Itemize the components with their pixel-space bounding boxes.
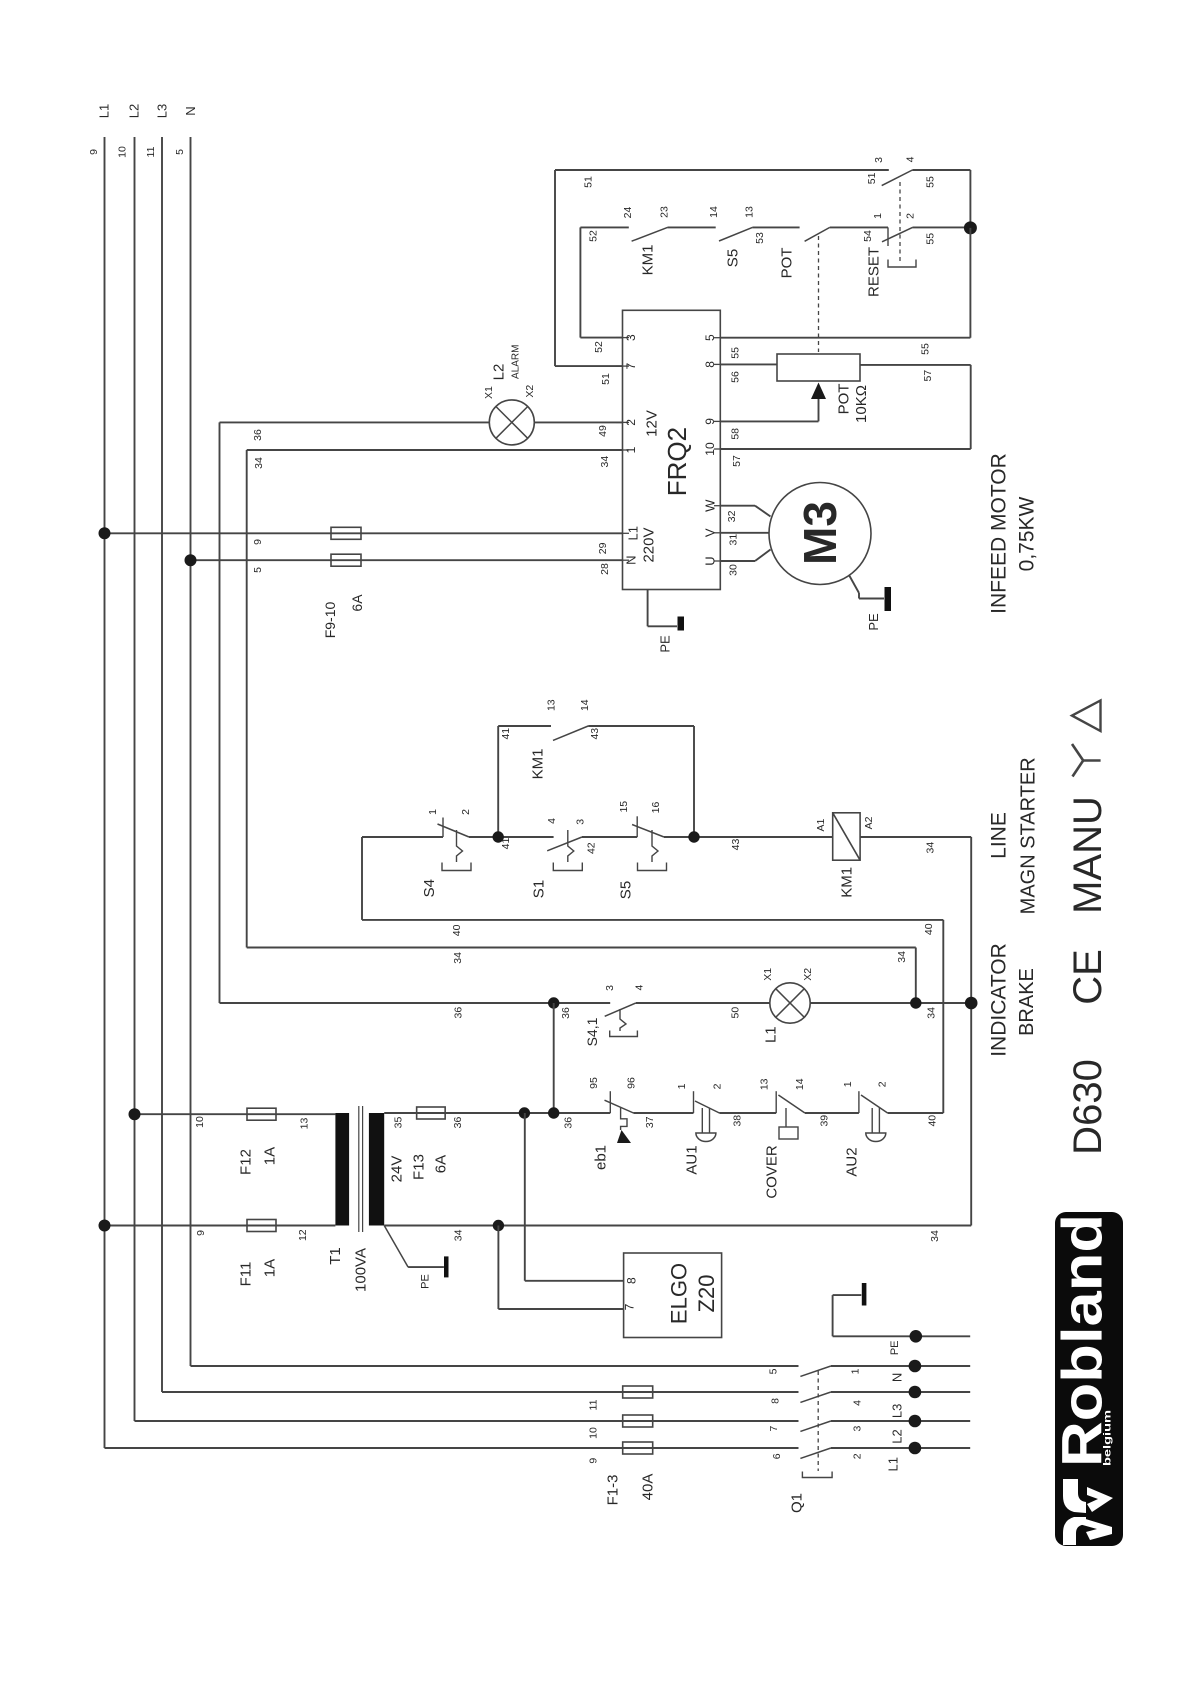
svg-text:N: N [890, 1373, 905, 1382]
svg-text:V: V [703, 528, 718, 537]
svg-text:1A: 1A [262, 1259, 279, 1277]
svg-text:AU1: AU1 [684, 1145, 701, 1174]
svg-text:32: 32 [726, 510, 738, 522]
svg-text:9: 9 [88, 149, 100, 155]
svg-text:37: 37 [644, 1116, 656, 1128]
svg-text:7: 7 [624, 362, 638, 369]
svg-text:220V: 220V [641, 527, 658, 562]
svg-text:COVER: COVER [764, 1145, 781, 1199]
svg-text:35: 35 [392, 1117, 404, 1129]
svg-text:AU2: AU2 [844, 1147, 861, 1176]
svg-text:MAGN STARTER: MAGN STARTER [1017, 757, 1039, 914]
svg-text:INDICATOR: INDICATOR [987, 943, 1010, 1057]
svg-text:36: 36 [252, 429, 264, 441]
svg-text:34: 34 [453, 1229, 465, 1241]
svg-text:14: 14 [708, 206, 720, 218]
svg-text:39: 39 [819, 1115, 831, 1127]
svg-text:10: 10 [194, 1116, 206, 1128]
svg-text:PE: PE [889, 1340, 901, 1355]
svg-text:43: 43 [589, 728, 601, 740]
svg-text:10: 10 [703, 442, 717, 456]
svg-text:6A: 6A [433, 1155, 450, 1173]
svg-text:X1: X1 [483, 386, 495, 399]
svg-text:L1: L1 [97, 104, 112, 118]
svg-text:34: 34 [925, 1007, 937, 1019]
svg-text:24: 24 [622, 207, 634, 219]
svg-text:A1: A1 [815, 819, 827, 832]
svg-text:40: 40 [923, 923, 935, 935]
svg-text:15: 15 [618, 801, 630, 813]
svg-text:L3: L3 [890, 1404, 905, 1418]
svg-text:4: 4 [546, 818, 558, 824]
svg-text:eb1: eb1 [593, 1145, 610, 1170]
svg-text:14: 14 [579, 699, 591, 711]
svg-text:51: 51 [600, 373, 612, 385]
svg-text:1: 1 [427, 809, 439, 815]
svg-text:KM1: KM1 [640, 245, 657, 276]
svg-text:PE: PE [658, 635, 673, 653]
svg-text:CE: CE [1066, 949, 1110, 1005]
svg-text:29: 29 [597, 542, 609, 554]
svg-text:12: 12 [297, 1229, 309, 1241]
svg-text:34: 34 [924, 842, 936, 854]
svg-text:16: 16 [650, 802, 662, 814]
svg-text:10KΩ: 10KΩ [853, 385, 870, 423]
svg-text:S5: S5 [618, 881, 635, 899]
svg-text:9: 9 [587, 1458, 599, 1464]
svg-text:W: W [703, 499, 718, 512]
svg-text:BRAKE: BRAKE [1016, 968, 1038, 1036]
svg-text:0,75KW: 0,75KW [1016, 496, 1039, 571]
svg-text:X2: X2 [802, 968, 814, 981]
svg-text:51: 51 [582, 176, 594, 188]
svg-text:6: 6 [771, 1453, 783, 1459]
svg-text:23: 23 [658, 206, 670, 218]
svg-text:40: 40 [451, 924, 463, 936]
svg-text:S5: S5 [725, 249, 742, 267]
svg-text:1: 1 [624, 446, 638, 453]
svg-text:Z20: Z20 [694, 1275, 719, 1313]
svg-text:1: 1 [676, 1083, 688, 1089]
svg-text:56: 56 [730, 371, 742, 383]
svg-text:5: 5 [174, 149, 186, 155]
svg-text:T1: T1 [327, 1247, 344, 1265]
svg-text:5: 5 [703, 334, 717, 341]
svg-text:34: 34 [599, 456, 611, 468]
svg-text:2: 2 [712, 1083, 724, 1089]
svg-text:34: 34 [452, 952, 464, 964]
svg-text:L2: L2 [491, 364, 508, 381]
svg-text:36: 36 [560, 1007, 572, 1019]
svg-text:FRQ2: FRQ2 [662, 427, 692, 496]
svg-text:X1: X1 [762, 968, 774, 981]
svg-text:4: 4 [905, 156, 917, 162]
svg-text:95: 95 [588, 1077, 600, 1089]
svg-text:F13: F13 [411, 1154, 428, 1180]
svg-text:54: 54 [862, 230, 874, 242]
svg-text:57: 57 [731, 455, 743, 467]
svg-text:ALARM: ALARM [511, 345, 522, 379]
svg-text:KM1: KM1 [839, 867, 856, 898]
svg-text:50: 50 [730, 1007, 742, 1019]
svg-text:L1: L1 [626, 526, 641, 540]
svg-text:8: 8 [770, 1398, 782, 1404]
svg-text:36: 36 [453, 1007, 465, 1019]
svg-text:2: 2 [905, 213, 917, 219]
svg-text:34: 34 [253, 457, 265, 469]
svg-text:49: 49 [597, 425, 609, 437]
svg-text:D630: D630 [1066, 1059, 1110, 1155]
svg-text:55: 55 [730, 347, 742, 359]
svg-text:F12: F12 [238, 1149, 255, 1175]
svg-text:U: U [703, 556, 718, 565]
svg-text:S1: S1 [530, 880, 547, 898]
svg-text:38: 38 [732, 1115, 744, 1127]
svg-text:58: 58 [730, 428, 742, 440]
svg-text:28: 28 [599, 563, 611, 575]
svg-text:A2: A2 [863, 816, 875, 829]
svg-text:96: 96 [626, 1077, 638, 1089]
svg-text:X2: X2 [524, 385, 536, 398]
svg-text:3: 3 [624, 334, 638, 341]
svg-text:2: 2 [876, 1081, 888, 1087]
svg-text:S4,1: S4,1 [584, 1017, 600, 1046]
svg-text:PE: PE [420, 1274, 432, 1289]
svg-text:6A: 6A [349, 594, 365, 612]
svg-text:55: 55 [924, 233, 936, 245]
svg-text:9: 9 [195, 1230, 207, 1236]
svg-text:53: 53 [754, 232, 766, 244]
svg-text:7: 7 [623, 1303, 637, 1310]
svg-text:100VA: 100VA [353, 1248, 370, 1292]
svg-text:1: 1 [842, 1081, 854, 1087]
svg-text:2: 2 [624, 419, 638, 426]
svg-text:7: 7 [768, 1426, 780, 1432]
svg-text:3: 3 [575, 819, 587, 825]
svg-text:40A: 40A [640, 1474, 657, 1501]
svg-text:13: 13 [545, 699, 557, 711]
svg-text:4: 4 [633, 985, 645, 991]
svg-text:8: 8 [703, 361, 717, 368]
svg-text:4: 4 [852, 1400, 864, 1406]
svg-text:ELGO: ELGO [667, 1263, 692, 1324]
svg-text:13: 13 [759, 1078, 771, 1090]
svg-text:13: 13 [744, 206, 756, 218]
svg-text:L3: L3 [155, 104, 170, 118]
svg-text:30: 30 [727, 564, 739, 576]
svg-text:3: 3 [873, 157, 885, 163]
svg-text:55: 55 [924, 176, 936, 188]
svg-text:43: 43 [730, 839, 742, 851]
svg-text:L1: L1 [886, 1457, 901, 1471]
svg-text:11: 11 [145, 146, 157, 157]
svg-text:36: 36 [563, 1117, 575, 1129]
svg-text:PE: PE [866, 613, 881, 631]
svg-text:11: 11 [587, 1399, 599, 1410]
svg-text:L2: L2 [890, 1429, 905, 1443]
svg-text:KM1: KM1 [529, 749, 546, 780]
svg-text:31: 31 [727, 534, 739, 546]
svg-text:N: N [624, 556, 639, 565]
svg-text:2: 2 [852, 1453, 864, 1459]
svg-text:57: 57 [922, 370, 934, 382]
svg-text:34: 34 [929, 1230, 941, 1242]
svg-text:POT: POT [836, 384, 853, 415]
svg-text:POT: POT [779, 248, 796, 279]
svg-text:N: N [183, 106, 198, 115]
svg-text:S4: S4 [421, 879, 438, 897]
svg-text:52: 52 [593, 341, 605, 353]
svg-text:41: 41 [500, 838, 512, 850]
svg-text:L1: L1 [763, 1026, 780, 1043]
svg-text:10: 10 [587, 1427, 599, 1439]
svg-text:5: 5 [252, 567, 264, 573]
svg-text:5: 5 [768, 1368, 780, 1374]
svg-text:10: 10 [117, 146, 129, 158]
svg-text:belgium: belgium [1103, 1410, 1114, 1466]
svg-text:3: 3 [604, 985, 616, 991]
svg-text:51: 51 [866, 172, 878, 184]
svg-text:M3: M3 [794, 501, 846, 565]
svg-text:RESET: RESET [866, 247, 883, 297]
svg-text:40: 40 [927, 1115, 939, 1127]
svg-text:1: 1 [850, 1368, 862, 1374]
svg-text:3: 3 [852, 1426, 864, 1432]
svg-text:13: 13 [298, 1118, 310, 1130]
svg-text:8: 8 [625, 1277, 639, 1284]
svg-text:L2: L2 [127, 104, 142, 118]
svg-text:42: 42 [585, 842, 597, 854]
svg-text:9: 9 [703, 418, 717, 425]
svg-text:2: 2 [460, 809, 472, 815]
svg-text:F9-10: F9-10 [322, 602, 338, 639]
svg-text:34: 34 [896, 951, 908, 963]
svg-text:MANU: MANU [1066, 796, 1110, 914]
svg-text:9: 9 [252, 539, 264, 545]
svg-text:F11: F11 [238, 1262, 255, 1287]
svg-text:41: 41 [500, 728, 512, 740]
svg-text:52: 52 [587, 230, 599, 242]
svg-text:Q1: Q1 [789, 1493, 806, 1513]
svg-text:F1-3: F1-3 [605, 1475, 622, 1506]
svg-text:1: 1 [872, 213, 884, 219]
svg-text:LINE: LINE [988, 812, 1011, 859]
svg-text:INFEED MOTOR: INFEED MOTOR [988, 453, 1011, 614]
svg-text:55: 55 [919, 343, 931, 355]
svg-text:14: 14 [794, 1078, 806, 1090]
svg-text:1A: 1A [262, 1147, 279, 1165]
svg-text:12V: 12V [644, 410, 661, 437]
svg-text:24V: 24V [389, 1156, 406, 1183]
svg-text:36: 36 [452, 1117, 464, 1129]
